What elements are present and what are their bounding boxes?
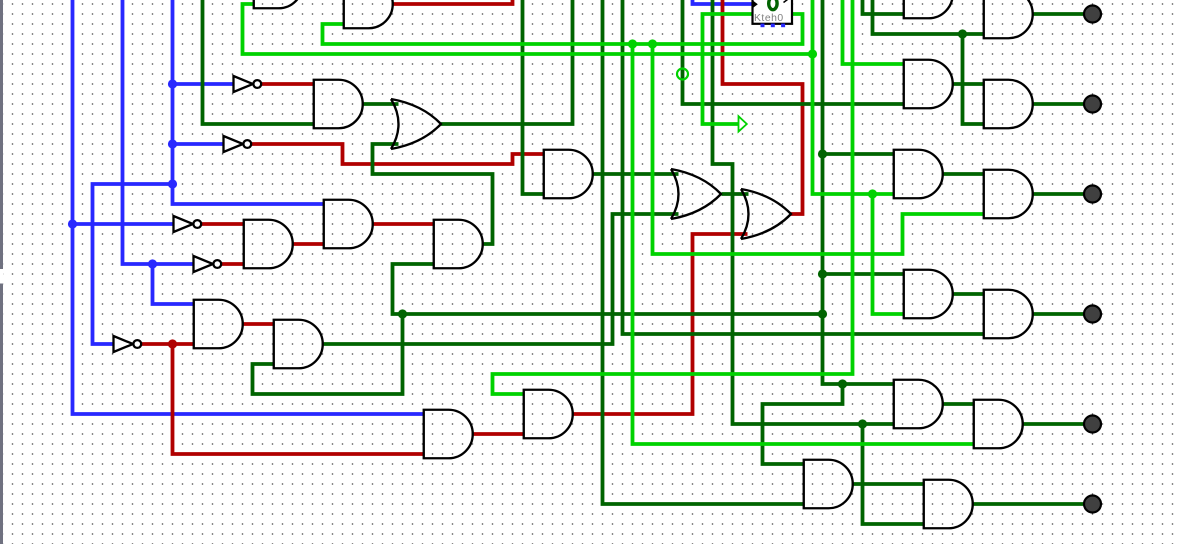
wire green1 vertical x=842.5 to AND T4 input [843, 0, 905, 64]
subcircuit box Kteh0 [753, 0, 793, 24]
wire green0 branch to AND L upper input [763, 384, 843, 464]
wire green1 branch x=652.5 to AND B lower input [653, 44, 985, 254]
wire green0 AND T2 output to LED1 [1032, 12, 1085, 16]
AND gate D [274, 320, 323, 369]
wire blue net C vertical x=172.5 to AND G1 input [173, 0, 325, 204]
inverter (NOT gate) N0 [234, 76, 262, 92]
wire green1 subcircuit Q output loop to AND O input [323, 14, 803, 44]
AND gate N (top left, clipped) [254, 0, 303, 8]
wire green0 big net vertical x=822.5 to AND H input [823, 0, 895, 384]
wire green0 vertical x=872.5 to AND T2 input [873, 0, 985, 34]
AND gate T2 (top, clipped) [984, 0, 1033, 38]
wire blue branch to inverter N0 input [173, 82, 235, 86]
AND gate O [344, 0, 393, 28]
wire green0 AND T4 output to AND T3 [952, 82, 985, 86]
window border left strip [0, 0, 3, 544]
LED output LED3 (off) [1084, 186, 1101, 203]
AND gate T3 [984, 80, 1033, 129]
wire green0 vertical x=602.5 to AND L lower input [603, 0, 805, 504]
subcircuit unconnected pin stub 1 [761, 24, 765, 28]
node J10 (wire junction) [398, 309, 407, 318]
svg-text:Kteh0: Kteh0 [754, 13, 784, 24]
node J2 (wire junction) [148, 259, 157, 268]
AND gate Q [314, 80, 363, 129]
AND gate L [804, 460, 853, 509]
wire green1 branch x=632.5 to AND I lower input [633, 44, 975, 444]
AND gate A [894, 150, 943, 199]
clock marker triangle [739, 116, 747, 131]
wire green0 branch west to AND G2 lower input [393, 264, 823, 314]
inverter (NOT gate) N4 [194, 256, 222, 272]
wire green0 vertical x=862.5 to AND T1 input [863, 0, 905, 14]
wire green0 branch to AND D lower input [253, 314, 403, 394]
wire green0 AND Q output to OR R [362, 102, 399, 106]
node J1 (wire junction) [68, 219, 77, 228]
OR gate R [391, 99, 441, 149]
node J4 (wire junction) [168, 139, 177, 148]
wire green0 AND T3 output to LED2 [1032, 102, 1085, 106]
inverter (NOT gate) N1 [224, 136, 252, 152]
wire green1 branch to AND F lower input [873, 194, 905, 314]
AND gate I [974, 400, 1023, 449]
AND gate G2 [434, 220, 483, 269]
AND gate C [194, 300, 243, 349]
inverter (NOT gate) N3 [114, 336, 142, 352]
wire red inverter N4 output to AND C0 [222, 262, 245, 266]
inverter (NOT gate) N2 [174, 216, 202, 232]
wire blue net B vertical x=122.5 to inverter N4 input [123, 0, 195, 264]
wire green0 branch to AND M lower input [863, 424, 925, 524]
wire red branch to AND J lower input [173, 344, 425, 454]
wire blue branch to inverter N3 input [93, 184, 173, 344]
AND gate C0 [244, 220, 293, 269]
wire green0 AND H output to AND I [942, 402, 975, 406]
window border gap [0, 269, 3, 284]
wire green1 vertical x=852.5 to AND E upper input [493, 0, 853, 394]
wire green0 vertical x=712.5 jog to AND H lower input [713, 0, 895, 424]
node J6 (wire junction) [168, 339, 177, 348]
node J15 (wire junction) [648, 39, 657, 48]
wire green0 vertical x=622.5 to AND G lower input [623, 0, 985, 334]
wire green0 AND B output to LED3 [1032, 192, 1085, 196]
wire green1 AND N input loop down east [243, 4, 813, 54]
node J14 (wire junction) [628, 39, 637, 48]
node J13 (wire junction) [958, 29, 967, 38]
AND gate T4 [904, 60, 953, 109]
wire green0 AND M output to LED6 [972, 502, 1085, 506]
wire blue branch to inverter N1 input [173, 142, 225, 146]
wire green1 vertical x=812.5 to AND A lower input [813, 0, 895, 194]
wire blue branch to inverter N2 input [73, 222, 175, 226]
wire green1 subcircuit D pin loop to clock marker [703, 14, 753, 124]
wire red inverter N3 output to AND C [142, 342, 195, 346]
AND gate G1 [324, 200, 373, 249]
LED output LED5 (off) [1084, 416, 1101, 433]
wire red AND C0 output to AND G1 [292, 242, 325, 246]
wire green0 AND I output to LED5 [1022, 422, 1085, 426]
node J11 (wire junction) [838, 379, 847, 388]
LED output LED2 (off) [1084, 96, 1101, 113]
subcircuit state value 0 [769, 0, 777, 10]
node J8 (wire junction) [818, 269, 827, 278]
wire green0 branch to AND A input [823, 152, 895, 156]
node J12 (wire junction) [858, 419, 867, 428]
wire green0 AND G output to LED4 [1032, 312, 1085, 316]
wire red AND O output to top edge [392, 0, 513, 4]
wire green0 vertical x=522.5 to AND G3 lower input [523, 0, 545, 194]
subcircuit unconnected pin stub 3 [781, 24, 785, 28]
subcircuit clock input wedge [753, 0, 758, 8]
AND gate B [984, 170, 1033, 219]
OR gate O1 [671, 169, 721, 219]
wire green0 vertical x=682.5 to AND T4 lower input [683, 0, 905, 104]
node J3 (wire junction) [168, 79, 177, 88]
wire green0 AND L output to AND M [852, 482, 925, 486]
wire green0 vertical x=202.5 to AND Q lower input [203, 0, 315, 124]
AND gate G [984, 290, 1033, 339]
AND gate H [894, 380, 943, 429]
LED output LED4 (off) [1084, 306, 1101, 323]
node J9 (wire junction) [818, 309, 827, 318]
wire red OR O2 output to top edge [723, 0, 803, 214]
wire red AND C output to AND D [242, 322, 275, 326]
node J7 (wire junction) [818, 149, 827, 158]
wire blue branch to AND C input [153, 264, 195, 304]
AND gate T1 (top, clipped) [904, 0, 953, 18]
wire red inverter N2 output to AND C0 [202, 222, 245, 226]
wire green0 AND D output to OR O1 lower input [322, 214, 679, 344]
wire green0 AND A output to AND B [942, 172, 985, 176]
wire blue clock wire into subcircuit [693, 0, 753, 4]
OR gate O2 [741, 189, 791, 239]
wire green0 AND F output to AND G [952, 292, 985, 296]
AND gate M [924, 480, 973, 529]
wire green0 AND G2 output loop to OR R lower input [373, 144, 493, 244]
wire red AND E output up to OR O2 input [572, 234, 748, 414]
AND gate G3 [544, 150, 593, 199]
LED output LED6 (off) [1084, 496, 1101, 513]
AND gate E [524, 390, 573, 439]
wire red AND G1 output to AND G2 [372, 222, 435, 226]
wire green0 OR R output to top edge [441, 0, 573, 124]
node J17 (wire junction) [868, 189, 877, 198]
wire green0 OR O1 output to OR O2 [722, 192, 749, 196]
wire green0 branch to AND T3 lower input [963, 34, 985, 124]
AND gate F [904, 270, 953, 319]
output pin ring on wire x=682.5 [677, 69, 688, 80]
LED output LED1 (off) [1084, 6, 1101, 23]
node J5 (wire junction) [168, 179, 177, 188]
wire red AND J output to AND E [472, 432, 525, 436]
wire blue net A vertical x=72.5 to AND J input [73, 0, 425, 414]
wire red inverter N1 output to AND G3 [252, 144, 545, 164]
node J16 (wire junction) [808, 49, 817, 58]
AND gate J [424, 410, 473, 459]
wire red inverter N0 output to AND Q [262, 82, 315, 86]
subcircuit unconnected pin stub 2 [771, 24, 775, 28]
wire green0 AND G3 output to OR O1 [592, 172, 679, 176]
wire green0 branch to AND F input [823, 272, 905, 276]
